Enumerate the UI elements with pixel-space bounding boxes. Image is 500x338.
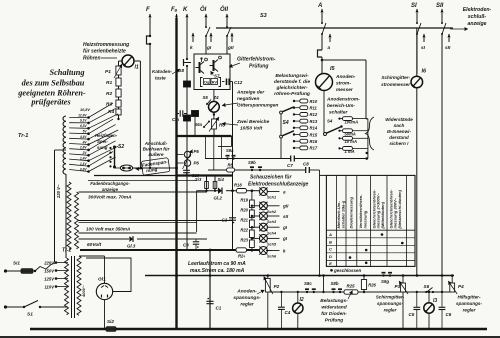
capacitor C1 <box>206 298 221 311</box>
rectifier tube Gl1 <box>96 277 112 300</box>
svg-text:gI: gI <box>282 225 288 230</box>
label Widerstaende nach I5 with brace <box>366 117 414 150</box>
svg-text:Tr-2: Tr-2 <box>62 248 72 254</box>
svg-text:C3: C3 <box>183 243 189 248</box>
svg-text:derstände f. die: derstände f. die <box>274 79 310 85</box>
svg-text:S4: S4 <box>283 120 289 126</box>
label Elektrodenschlussanzeige <box>450 7 492 31</box>
svg-text:Prüfung: Prüfung <box>325 318 343 324</box>
label Anschluss-Buchsen fuer aeussere <box>143 141 170 157</box>
svg-text:RV: RV <box>212 80 218 84</box>
svg-text:B: B <box>329 239 332 244</box>
meter I5 Anodenstrommesser <box>316 66 336 91</box>
socket box <box>194 54 230 90</box>
label 10.8V <box>80 108 90 112</box>
svg-text:max.Strom ca. 180 mA: max.Strom ca. 180 mA <box>190 268 245 274</box>
wire fan to divider bottom <box>117 118 119 120</box>
table dots <box>349 233 404 264</box>
bus heavy horizontal y175.5 <box>94 174 233 176</box>
svg-text:Sch2: Sch2 <box>267 210 277 214</box>
svg-text:4,4V: 4,4V <box>79 135 87 139</box>
arrow gI <box>206 33 213 52</box>
svg-text:Heizstrommessung: Heizstrommessung <box>83 42 129 48</box>
svg-text:Schirmgitter-: Schirmgitter- <box>376 295 405 300</box>
wire I1 to divider chain <box>119 61 141 168</box>
svg-text:prüfgerätes: prüfgerätes <box>30 98 70 107</box>
terminal Fg (heavy heater line) <box>171 7 178 20</box>
svg-text:Widerstände: Widerstände <box>385 117 413 122</box>
capacitor C3 <box>183 239 199 250</box>
svg-text:gleichrichter-: gleichrichter- <box>276 85 308 91</box>
node chain top <box>251 189 254 192</box>
svg-text:widerstand: widerstand <box>321 305 347 311</box>
vertical links from bus136 <box>206 136 222 170</box>
capacitor C4 <box>278 292 291 329</box>
svg-text:für Dioden-: für Dioden- <box>321 311 347 317</box>
svg-text:220 V~: 220 V~ <box>56 184 61 199</box>
svg-text:1 mA: 1 mA <box>345 149 355 154</box>
svg-text:50mA: 50mA <box>345 131 356 136</box>
svg-text:R24: R24 <box>238 254 245 259</box>
svg-text:I3: I3 <box>433 298 437 304</box>
wire Tr2 left vertical <box>67 258 68 260</box>
label Hilfsgitterspannungsregler <box>456 295 483 313</box>
wire secondary top to Gl1 <box>79 256 105 283</box>
svg-text:S8b: S8b <box>331 281 339 286</box>
label Heizstrommessung fuer serienbeheizte Roehren <box>83 42 129 62</box>
Tr2 primary taps <box>43 261 68 290</box>
svg-text:100mA: 100mA <box>345 119 359 124</box>
svg-text:Fadenbruchgangs-: Fadenbruchgangs- <box>90 181 130 186</box>
svg-text:(Mitteldioden): (Mitteldioden) <box>380 201 385 228</box>
label Heizfaden-Speisung <box>95 133 118 150</box>
capacitor C6 <box>439 292 452 329</box>
potentiometer P6 <box>177 150 200 170</box>
svg-text:E: E <box>329 261 332 266</box>
svg-text:C: C <box>329 247 332 252</box>
capacitor C10 <box>183 167 200 179</box>
bus heavy y250 <box>80 249 272 252</box>
svg-text:R25: R25 <box>347 284 356 289</box>
svg-text:regler: regler <box>463 308 476 313</box>
wire thin y180.5 <box>88 180 197 182</box>
wire lamp to Fg <box>115 167 178 170</box>
svg-text:spannungs-: spannungs- <box>377 301 404 306</box>
svg-text:I1: I1 <box>135 65 139 71</box>
svg-text:R19: R19 <box>240 198 248 203</box>
wire meter I5 leg <box>323 91 325 134</box>
svg-text:Spei-: Spei- <box>97 139 108 144</box>
terminal K <box>183 7 189 59</box>
svg-text:Anoden-: Anoden- <box>236 289 257 295</box>
svg-text:sII: sII <box>445 45 451 51</box>
svg-text:S8: S8 <box>179 68 185 73</box>
meter I3 <box>424 292 438 329</box>
bus y158.5 <box>205 157 368 160</box>
svg-text:C5: C5 <box>409 312 415 317</box>
svg-text:220V: 220V <box>43 261 55 266</box>
label Fadenspannung in slanted box <box>136 158 170 176</box>
svg-text:k: k <box>190 45 193 51</box>
switch S5 Z4 <box>203 95 220 105</box>
svg-text:Belastungs-: Belastungs- <box>320 298 348 304</box>
range resistors with mA labels <box>338 117 368 154</box>
Dg RV bracket components <box>201 78 221 87</box>
wire K down <box>186 66 188 250</box>
solid resistor above bus <box>192 111 199 137</box>
label Zwei Bereiche 10/50 Volt <box>222 119 270 132</box>
potentiometer P2 <box>264 274 280 329</box>
switch S9g <box>381 273 392 284</box>
svg-text:S3: S3 <box>260 13 267 19</box>
svg-text:schalter S9a-g: schalter S9a-g <box>341 200 346 228</box>
label Anzeige der negativen Gitterspannungen <box>222 90 278 109</box>
transformer Tr2 winding upper left <box>67 182 71 250</box>
label Schauzeichen fuer Elektrodenschlussanzeige <box>248 175 309 188</box>
wire Gl1 right loop <box>86 258 131 292</box>
svg-text:0,6V: 0,6V <box>80 167 87 171</box>
svg-text:geschlossen: geschlossen <box>333 268 362 273</box>
selector S2 contact dots <box>109 147 111 168</box>
svg-text:Sch6: Sch6 <box>267 255 277 259</box>
svg-text:Sch4: Sch4 <box>267 231 277 235</box>
svg-text:A: A <box>317 3 322 9</box>
fuse Si2 <box>104 319 118 331</box>
svg-text:R14: R14 <box>310 126 318 131</box>
svg-text:C4: C4 <box>285 310 291 315</box>
arrow a <box>328 34 332 52</box>
svg-text:a: a <box>328 46 331 51</box>
svg-text:C12: C12 <box>234 80 243 85</box>
svg-text:9,1V: 9,1V <box>80 119 87 123</box>
wire Tr1 to mains vertical <box>65 174 67 258</box>
svg-text:sII: sII <box>283 214 289 219</box>
svg-text:Katoden-: Katoden- <box>152 69 172 74</box>
svg-text:Buchsen für: Buchsen für <box>143 147 170 152</box>
capacitor C5 <box>409 292 421 329</box>
svg-text:Belastungswi-: Belastungswi- <box>275 73 309 79</box>
svg-text:P5: P5 <box>194 149 200 154</box>
terminal A with switch <box>317 3 326 50</box>
fuse Si1 <box>4 261 56 274</box>
svg-text:K: K <box>183 7 188 13</box>
capacitor C2 <box>222 189 237 223</box>
wire y170 <box>208 169 320 171</box>
wire from 100V box up <box>196 191 198 232</box>
svg-text:Anschluß-: Anschluß- <box>144 141 168 146</box>
svg-text:R10: R10 <box>310 99 318 104</box>
svg-text:messung: messung <box>363 210 368 228</box>
svg-text:100 Volt max 350mA: 100 Volt max 350mA <box>86 227 130 232</box>
resistor R4 <box>108 109 121 115</box>
svg-text:gII: gII <box>282 204 289 209</box>
switch S8b <box>331 281 343 293</box>
arrow sII <box>445 34 451 52</box>
svg-text:F: F <box>146 7 150 13</box>
title Schaltung des zum Selbstbau geeigneten Roehrenpruefgeraetes <box>17 68 86 107</box>
svg-text:schluß-: schluß- <box>468 14 487 20</box>
svg-text:R8: R8 <box>228 163 234 168</box>
svg-text:2,8V: 2,8V <box>79 146 87 150</box>
svg-text:nach: nach <box>394 123 405 128</box>
resistor ladder R19-R23 <box>240 191 254 251</box>
svg-text:SII: SII <box>436 3 444 9</box>
label Fadenbruchgangsanzeige <box>90 181 130 192</box>
wire 220V feed left <box>55 150 67 263</box>
svg-text:D: D <box>329 254 332 259</box>
label Schirmgitterspannungsregler <box>376 295 405 313</box>
capacitor C7 series <box>287 156 294 169</box>
svg-text:ÖII: ÖII <box>220 6 228 13</box>
potentiometer P5 <box>177 149 200 158</box>
label Anodenstrommesser <box>335 74 356 93</box>
svg-text:Si3: Si3 <box>195 177 202 182</box>
svg-text:R22: R22 <box>240 228 248 233</box>
diode Gl2 <box>214 188 223 201</box>
svg-text:Diodenmessung: Diodenmessung <box>349 196 354 228</box>
transformer Tr2 winding upper right <box>75 192 79 249</box>
tube symbol right with S7 <box>210 56 222 78</box>
wire A to range resistors <box>322 60 366 119</box>
svg-text:125V: 125V <box>44 277 55 282</box>
wire rectified line y190.7 <box>197 190 259 192</box>
svg-text:negativen: negativen <box>237 96 259 102</box>
svg-text:Gl.2: Gl.2 <box>214 196 223 201</box>
svg-text:R15: R15 <box>310 132 318 137</box>
svg-text:Sch3: Sch3 <box>267 220 277 224</box>
svg-text:S1: S1 <box>27 312 33 318</box>
svg-text:R23: R23 <box>240 238 248 243</box>
svg-text:Schauzeichen für: Schauzeichen für <box>250 175 292 181</box>
table rotated headers <box>336 189 402 229</box>
svg-text:R13: R13 <box>310 119 318 124</box>
svg-text:R17: R17 <box>310 146 318 151</box>
terminal SI <box>411 3 421 74</box>
svg-text:S6: S6 <box>424 284 430 289</box>
svg-text:S9g: S9g <box>381 279 389 284</box>
svg-text:S9b: S9b <box>248 160 256 165</box>
resistor R24 <box>236 248 247 259</box>
svg-text:110V: 110V <box>45 285 56 290</box>
svg-text:Elektroden-: Elektroden- <box>463 7 492 13</box>
lamps Sch1-Sch6 with electrode labels <box>251 187 289 258</box>
capacitor on K line lower (solid) <box>184 115 191 121</box>
terminal SII <box>436 3 446 276</box>
label geschlossen <box>330 268 361 273</box>
switch S6 <box>424 284 433 292</box>
switch S6a <box>195 121 211 129</box>
capacitor C8 series <box>303 162 309 174</box>
wire regulators y292 <box>268 291 452 293</box>
terminal F <box>146 7 152 168</box>
resistor R18 <box>234 183 247 193</box>
svg-text:Anodenstrom-: Anodenstrom- <box>326 97 360 103</box>
resistor R1 <box>106 78 121 86</box>
Tr1 tap fan with contact dots <box>69 103 118 173</box>
svg-text:P3: P3 <box>395 284 401 289</box>
svg-text:Si4: Si4 <box>218 177 225 182</box>
svg-text:1,1V: 1,1V <box>80 162 87 166</box>
svg-text:des zum Selbstbau: des zum Selbstbau <box>22 79 85 88</box>
selector S4 contacts and resistors R10-R17 <box>293 99 318 151</box>
svg-text:gII: gII <box>227 45 234 51</box>
svg-text:äußere: äußere <box>148 152 164 157</box>
svg-text:C1: C1 <box>216 306 222 311</box>
svg-text:derstand: derstand <box>389 135 409 140</box>
svg-text:10 mA: 10 mA <box>345 139 357 144</box>
bus bottom y329 <box>30 328 487 330</box>
capacitor Cm <box>172 110 187 122</box>
svg-text:I5-Innenwi-: I5-Innenwi- <box>387 129 411 134</box>
range selector wiper <box>324 119 343 136</box>
svg-text:R20: R20 <box>240 208 248 213</box>
diode Gl3 <box>127 236 136 248</box>
transformer Tr2 primary winding <box>65 258 69 315</box>
corner from bus136 <box>218 136 232 147</box>
svg-text:10,8V: 10,8V <box>80 108 90 112</box>
potentiometer P1 <box>105 64 122 78</box>
potentiometer R6 <box>209 117 225 132</box>
svg-text:12,6V: 12,6V <box>78 113 87 117</box>
svg-text:strommesser: strommesser <box>381 82 410 87</box>
svg-text:Anzeige der: Anzeige der <box>236 90 265 96</box>
svg-text:C2: C2 <box>222 218 228 223</box>
svg-text:Hilfsgitter-: Hilfsgitter- <box>458 295 481 300</box>
svg-text:S8c: S8c <box>304 281 312 286</box>
svg-text:S4: S4 <box>327 119 333 124</box>
scan edge bottom <box>0 336 500 338</box>
label 400V rotated <box>81 285 86 298</box>
svg-text:S6a: S6a <box>195 122 203 127</box>
label Belastungswiderstand fuer Dioden-Pruefung <box>320 291 352 324</box>
wire SII segment to regulators <box>441 276 443 293</box>
svg-text:300Volt max. 70mA: 300Volt max. 70mA <box>88 195 132 201</box>
svg-text:regler: regler <box>240 302 254 308</box>
svg-text:R16: R16 <box>310 139 318 144</box>
svg-text:anzeige: anzeige <box>467 21 486 27</box>
label Anodenspannungsregler <box>233 289 264 308</box>
transformer Tr1 winding <box>18 116 66 174</box>
svg-text:P1: P1 <box>105 69 111 75</box>
resistor R2 <box>106 89 121 97</box>
svg-text:taste: taste <box>155 76 166 81</box>
svg-text:6,3V: 6,3V <box>80 124 87 128</box>
indicator lamp oval (Fadenbruch) <box>120 165 132 171</box>
svg-text:sichern !: sichern ! <box>389 141 409 146</box>
label Leerlaufstrom <box>188 261 246 274</box>
svg-text:Röhren: Röhren <box>83 55 101 61</box>
svg-text:Tr-1: Tr-1 <box>18 133 28 139</box>
svg-text:Si2: Si2 <box>107 319 114 324</box>
selector S4 wiper arms <box>280 107 294 159</box>
box 300Volt <box>79 192 233 221</box>
arrow gII <box>227 33 234 52</box>
svg-text:strom-: strom- <box>336 81 351 87</box>
resistor R3 <box>106 100 121 108</box>
push-button S8 Katodentaste <box>179 58 192 73</box>
meter I1 <box>122 55 139 71</box>
wire Gl1 bottom to Si2 <box>104 300 106 329</box>
terminal ÖI <box>200 6 210 54</box>
bus heavy horizontal y136 <box>177 135 232 137</box>
svg-text:I2: I2 <box>300 297 304 303</box>
svg-text:S5: S5 <box>203 95 209 100</box>
wire Fg vertical bus <box>175 18 177 329</box>
svg-text:(Netzanschl.dioden): (Netzanschl.dioden) <box>397 189 402 228</box>
svg-text:60Volt: 60Volt <box>87 242 102 248</box>
svg-text:P4: P4 <box>458 284 464 289</box>
svg-text:Elektrodenschlußanzeige: Elektrodenschlußanzeige <box>248 182 309 188</box>
svg-text:1,4V: 1,4V <box>80 157 87 161</box>
svg-text:Sch1: Sch1 <box>267 196 276 200</box>
terminal ÖII <box>220 6 231 54</box>
svg-text:sung: sung <box>97 145 108 150</box>
svg-text:Schirmgitter-: Schirmgitter- <box>381 75 410 80</box>
label Schirmgitterstrommesser <box>381 75 410 87</box>
svg-text:R1: R1 <box>106 80 112 86</box>
potentiometer P4 <box>448 274 464 294</box>
meter I4 negative grid voltage <box>209 90 220 120</box>
svg-text:Cm: Cm <box>172 117 179 122</box>
label 220V~ rotated <box>56 184 61 199</box>
svg-text:R21: R21 <box>240 218 248 223</box>
tube symbol left <box>196 57 208 73</box>
wire y170 down right of lamps <box>319 170 321 276</box>
svg-text:R11: R11 <box>310 106 318 111</box>
svg-text:P6: P6 <box>194 161 200 166</box>
capacitor C12 <box>222 79 243 86</box>
svg-text:für serienbeheizte: für serienbeheizte <box>83 49 126 55</box>
resistor R26 vertical <box>361 274 376 292</box>
svg-text:bereich-Um-: bereich-Um- <box>327 103 355 109</box>
wire R6 to bus <box>213 129 215 136</box>
svg-text:P2: P2 <box>274 284 280 289</box>
box 60Volt <box>79 239 208 248</box>
arrow k <box>190 33 195 52</box>
wire chain segments <box>118 75 120 119</box>
svg-text:Si1: Si1 <box>13 261 20 266</box>
svg-text:röhren-Prüfung: röhren-Prüfung <box>274 91 310 97</box>
svg-text:R12: R12 <box>310 112 318 117</box>
svg-text:C6: C6 <box>446 312 452 317</box>
svg-text:S9a: S9a <box>226 148 234 153</box>
switch S8c <box>304 281 316 293</box>
svg-text:regler: regler <box>384 308 397 313</box>
svg-text:SI: SI <box>411 3 417 9</box>
svg-text:R18: R18 <box>234 183 242 188</box>
svg-text:150V: 150V <box>44 269 55 274</box>
svg-text:R2: R2 <box>106 91 112 97</box>
svg-text:S2: S2 <box>118 144 124 150</box>
svg-text:Schaltung: Schaltung <box>49 68 84 77</box>
wire regulators right junctions <box>416 291 444 293</box>
wire range bracket <box>366 119 368 159</box>
resistor R25 <box>344 284 358 295</box>
box 100Volt <box>79 223 197 234</box>
svg-text:gI: gI <box>282 236 288 241</box>
arrow sI <box>421 34 426 52</box>
wire C12 down to rectifier line <box>232 82 234 251</box>
resistor R8 <box>227 163 235 173</box>
svg-text:Anoden-: Anoden- <box>335 74 356 80</box>
transformer Tr2 label <box>62 248 72 254</box>
wire W1 drop x323.5 <box>322 274 325 292</box>
svg-text:Gitterspannungen: Gitterspannungen <box>237 103 278 109</box>
label Gitterfehlstrom-Pruefung <box>229 57 276 70</box>
svg-text:Heizfaden-: Heizfaden- <box>95 133 118 138</box>
switch S1 <box>4 301 68 318</box>
svg-text:a: a <box>283 189 286 194</box>
